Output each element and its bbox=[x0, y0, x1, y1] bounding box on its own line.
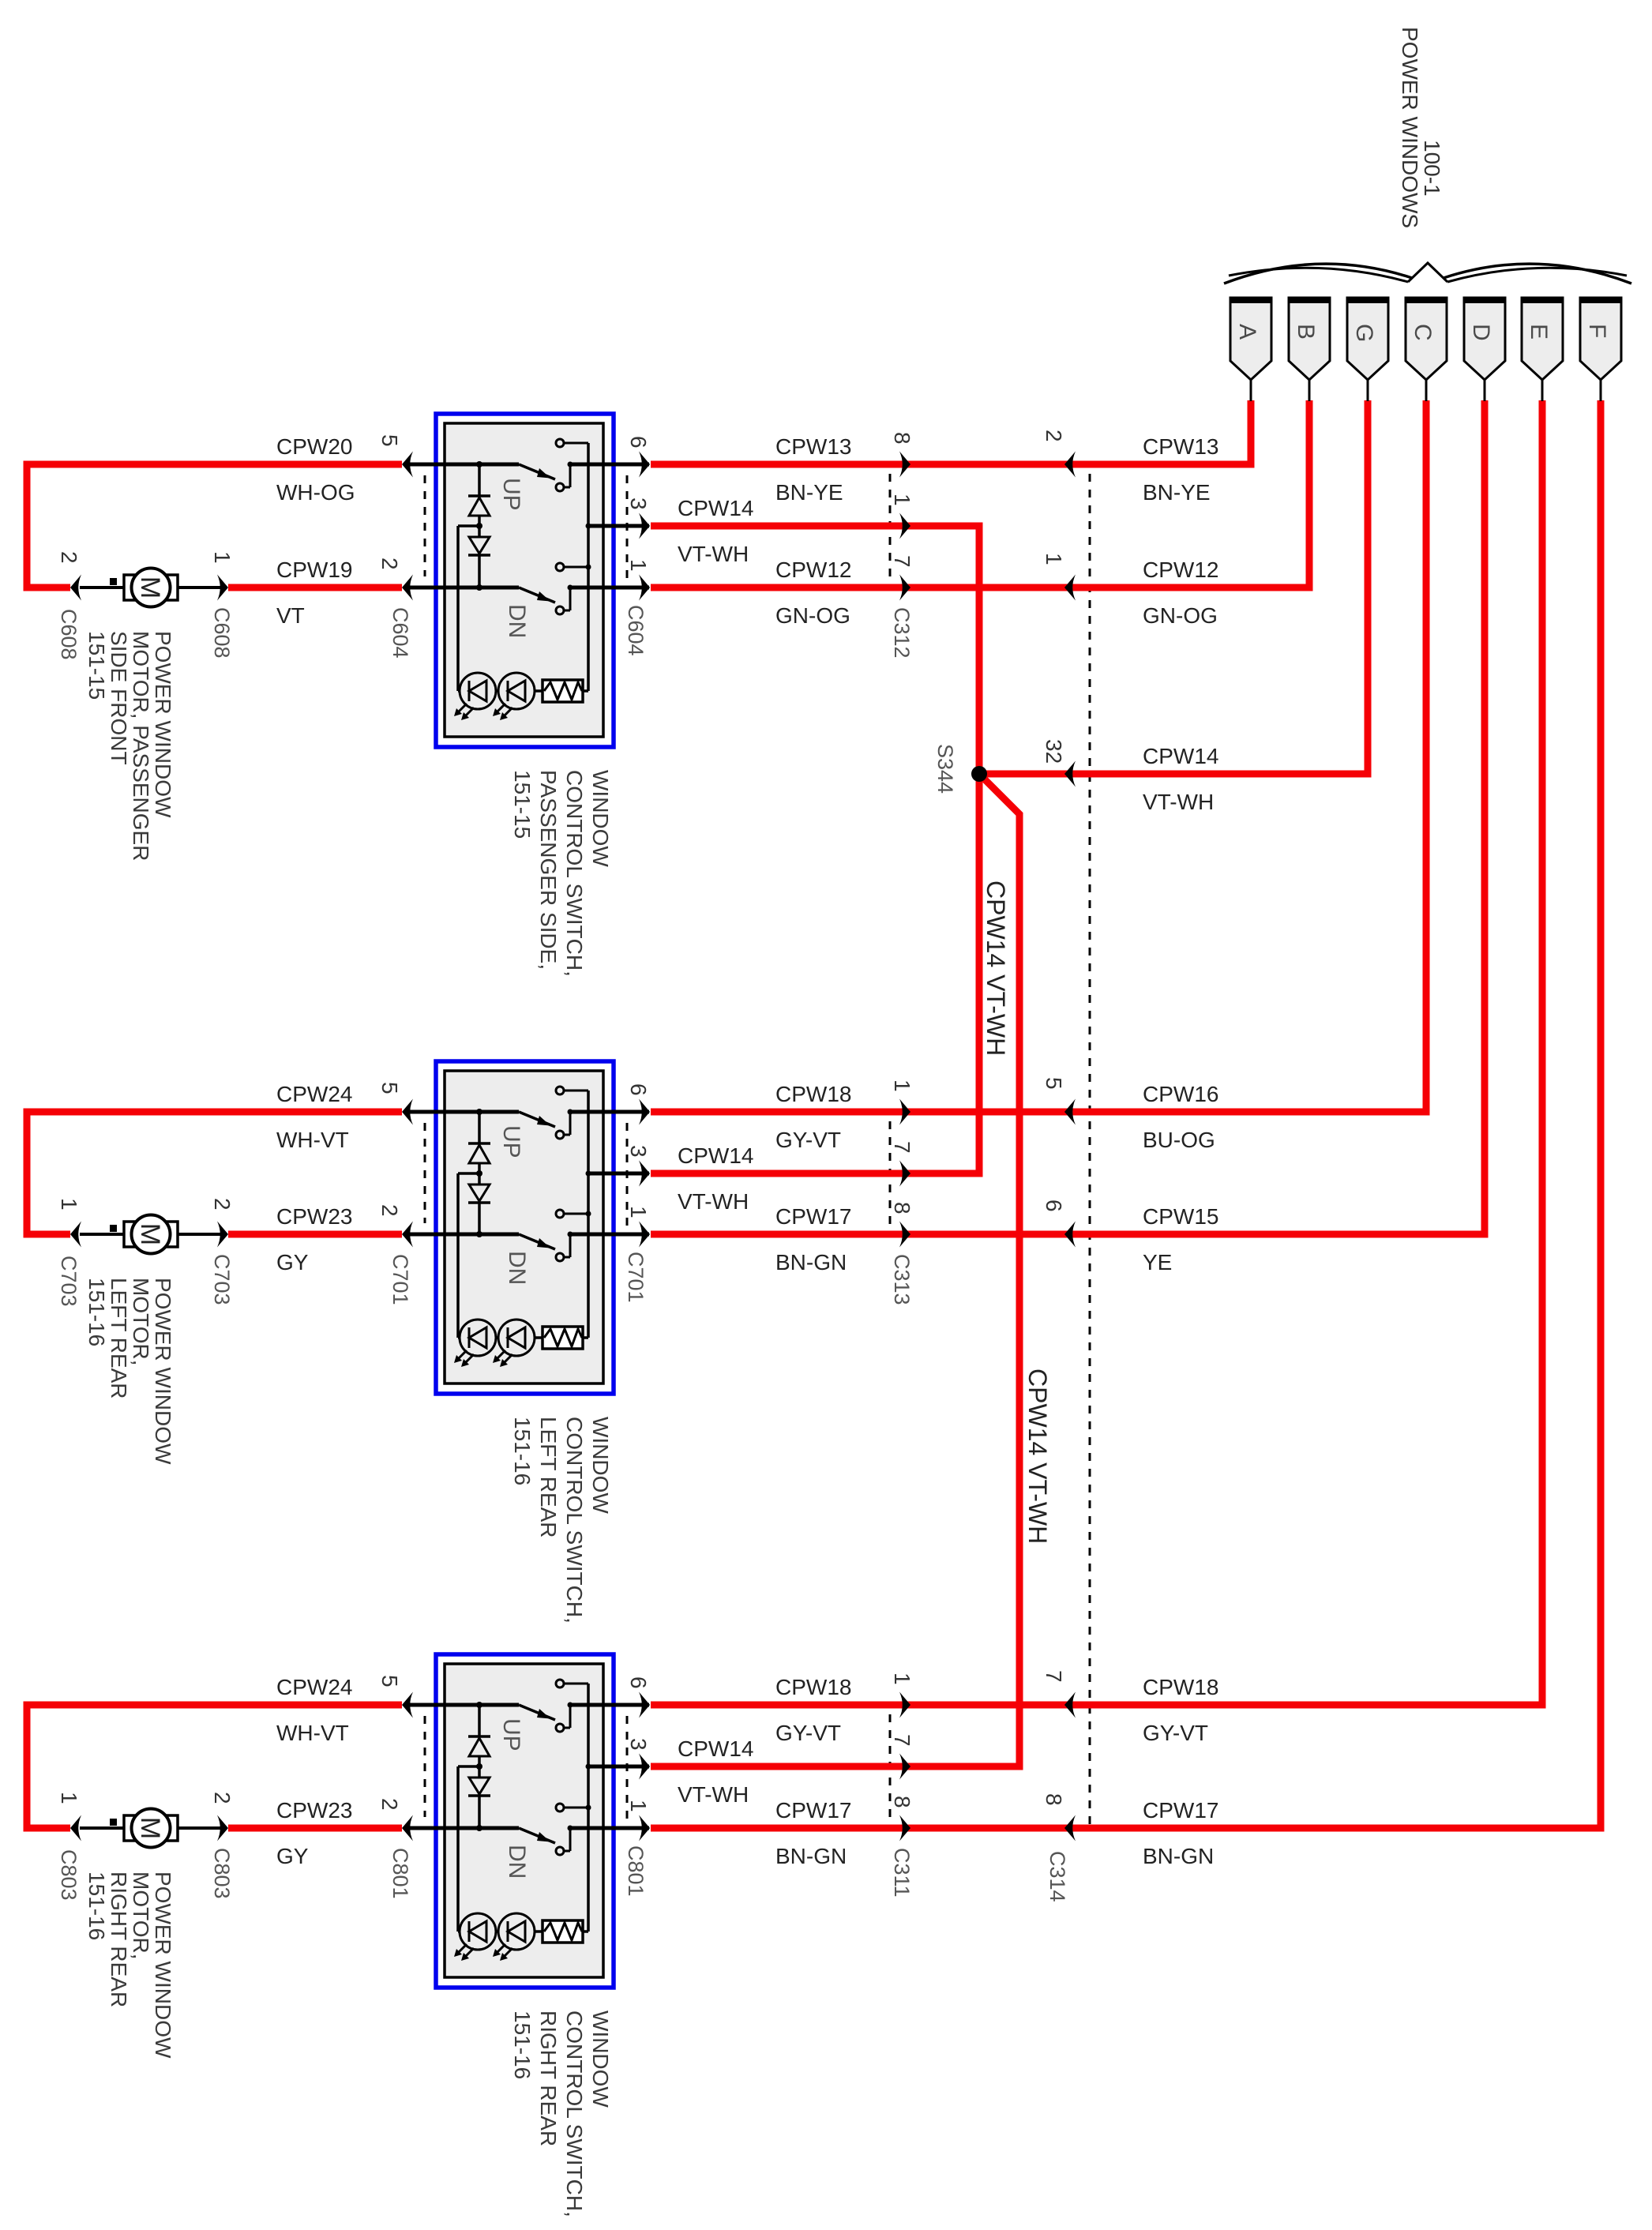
svg-text:2: 2 bbox=[377, 1204, 402, 1217]
svg-text:UP: UP bbox=[498, 1125, 524, 1158]
svg-text:BN-YE: BN-YE bbox=[775, 480, 843, 505]
svg-text:MOTOR, PASSENGER: MOTOR, PASSENGER bbox=[129, 631, 153, 861]
svg-text:5: 5 bbox=[377, 1082, 402, 1094]
svg-text:UP: UP bbox=[498, 1718, 524, 1751]
svg-text:CPW16: CPW16 bbox=[1143, 1082, 1218, 1106]
svg-text:GN-OG: GN-OG bbox=[775, 603, 850, 628]
svg-text:D: D bbox=[1468, 324, 1494, 341]
svg-text:GN-OG: GN-OG bbox=[1143, 603, 1218, 628]
svg-text:CPW24: CPW24 bbox=[276, 1082, 352, 1106]
svg-text:G: G bbox=[1351, 324, 1377, 342]
svg-text:8: 8 bbox=[890, 1202, 914, 1214]
svg-text:6: 6 bbox=[626, 1676, 651, 1689]
svg-text:CPW15: CPW15 bbox=[1143, 1204, 1218, 1229]
svg-text:C701: C701 bbox=[389, 1254, 412, 1305]
svg-text:E: E bbox=[1526, 324, 1552, 340]
svg-text:POWER WINDOW: POWER WINDOW bbox=[151, 1278, 175, 1465]
svg-text:CPW18: CPW18 bbox=[775, 1675, 851, 1699]
svg-text:151-16: 151-16 bbox=[510, 2010, 535, 2079]
svg-text:CPW17: CPW17 bbox=[775, 1204, 851, 1229]
svg-text:RIGHT REAR: RIGHT REAR bbox=[536, 2010, 561, 2146]
svg-text:151-16: 151-16 bbox=[84, 1278, 109, 1346]
svg-text:7: 7 bbox=[890, 1141, 914, 1154]
svg-text:6: 6 bbox=[626, 436, 651, 449]
svg-text:DN: DN bbox=[504, 604, 530, 638]
svg-text:C803: C803 bbox=[57, 1849, 81, 1901]
svg-text:RIGHT REAR: RIGHT REAR bbox=[107, 1871, 131, 2007]
svg-text:B: B bbox=[1293, 324, 1319, 340]
svg-text:2: 2 bbox=[377, 557, 402, 570]
svg-text:M: M bbox=[135, 576, 165, 599]
svg-text:POWER WINDOW: POWER WINDOW bbox=[151, 631, 175, 818]
svg-text:BN-GN: BN-GN bbox=[1143, 1844, 1214, 1868]
svg-text:WINDOW: WINDOW bbox=[588, 2010, 613, 2108]
svg-text:3: 3 bbox=[626, 497, 651, 510]
svg-text:POWER WINDOWS: POWER WINDOWS bbox=[1398, 27, 1422, 228]
svg-text:CPW14 VT-WH: CPW14 VT-WH bbox=[1023, 1368, 1052, 1544]
svg-text:1: 1 bbox=[626, 559, 651, 572]
svg-text:CPW17: CPW17 bbox=[775, 1798, 851, 1823]
svg-text:GY-VT: GY-VT bbox=[775, 1128, 841, 1152]
svg-text:UP: UP bbox=[498, 478, 524, 511]
svg-text:CPW23: CPW23 bbox=[276, 1798, 352, 1823]
svg-text:CONTROL SWITCH,: CONTROL SWITCH, bbox=[562, 2010, 587, 2217]
svg-text:VT: VT bbox=[276, 603, 305, 628]
svg-text:LEFT REAR: LEFT REAR bbox=[536, 1417, 561, 1538]
svg-text:GY: GY bbox=[276, 1250, 309, 1275]
svg-text:1: 1 bbox=[626, 1800, 651, 1812]
svg-text:C801: C801 bbox=[624, 1845, 648, 1897]
svg-text:WINDOW: WINDOW bbox=[588, 770, 613, 867]
svg-text:CPW18: CPW18 bbox=[1143, 1675, 1218, 1699]
svg-text:C604: C604 bbox=[624, 605, 648, 656]
svg-text:151-15: 151-15 bbox=[84, 631, 109, 700]
svg-text:A: A bbox=[1234, 324, 1260, 340]
svg-text:151-16: 151-16 bbox=[510, 1417, 535, 1485]
svg-text:C608: C608 bbox=[57, 609, 81, 660]
svg-text:1: 1 bbox=[890, 494, 914, 506]
svg-text:5: 5 bbox=[377, 1675, 402, 1688]
svg-text:C313: C313 bbox=[890, 1254, 914, 1305]
svg-text:BN-GN: BN-GN bbox=[775, 1844, 847, 1868]
svg-text:CPW14 VT-WH: CPW14 VT-WH bbox=[982, 880, 1010, 1056]
svg-text:WH-OG: WH-OG bbox=[276, 480, 355, 505]
svg-text:GY: GY bbox=[276, 1844, 309, 1868]
svg-text:C801: C801 bbox=[389, 1848, 412, 1899]
svg-text:CPW24: CPW24 bbox=[276, 1675, 352, 1699]
svg-text:2: 2 bbox=[210, 1198, 235, 1211]
svg-text:151-15: 151-15 bbox=[510, 770, 535, 839]
svg-text:1: 1 bbox=[626, 1206, 651, 1218]
svg-text:1: 1 bbox=[57, 1198, 81, 1211]
svg-text:100-1: 100-1 bbox=[1420, 140, 1444, 197]
svg-text:C703: C703 bbox=[57, 1256, 81, 1307]
svg-text:WH-VT: WH-VT bbox=[276, 1128, 349, 1152]
svg-text:BN-GN: BN-GN bbox=[775, 1250, 847, 1275]
svg-text:PASSENGER SIDE,: PASSENGER SIDE, bbox=[536, 770, 561, 970]
svg-text:32: 32 bbox=[1042, 739, 1066, 764]
svg-text:3: 3 bbox=[626, 1738, 651, 1751]
svg-text:CPW13: CPW13 bbox=[775, 434, 851, 459]
svg-text:CONTROL SWITCH,: CONTROL SWITCH, bbox=[562, 770, 587, 977]
svg-text:CPW12: CPW12 bbox=[775, 557, 851, 582]
svg-text:C312: C312 bbox=[890, 607, 914, 659]
svg-text:M: M bbox=[135, 1223, 165, 1245]
svg-text:6: 6 bbox=[1042, 1199, 1066, 1212]
svg-text:MOTOR,: MOTOR, bbox=[129, 1278, 153, 1365]
svg-text:GY-VT: GY-VT bbox=[775, 1721, 841, 1745]
svg-text:VT-WH: VT-WH bbox=[678, 1782, 749, 1807]
svg-text:VT-WH: VT-WH bbox=[1143, 790, 1214, 814]
svg-text:YE: YE bbox=[1143, 1250, 1172, 1275]
svg-text:7: 7 bbox=[1042, 1670, 1066, 1683]
svg-text:151-16: 151-16 bbox=[84, 1871, 109, 1940]
svg-text:DN: DN bbox=[504, 1845, 530, 1879]
svg-text:M: M bbox=[135, 1817, 165, 1839]
svg-text:CPW12: CPW12 bbox=[1143, 557, 1218, 582]
svg-text:VT-WH: VT-WH bbox=[678, 542, 749, 566]
svg-text:C314: C314 bbox=[1046, 1851, 1069, 1902]
svg-text:CPW14: CPW14 bbox=[1143, 744, 1218, 768]
svg-text:2: 2 bbox=[57, 551, 81, 564]
svg-text:7: 7 bbox=[890, 1734, 914, 1747]
svg-text:CPW17: CPW17 bbox=[1143, 1798, 1218, 1823]
svg-text:8: 8 bbox=[890, 1796, 914, 1808]
svg-text:CPW13: CPW13 bbox=[1143, 434, 1218, 459]
svg-text:2: 2 bbox=[1042, 430, 1066, 442]
svg-text:LEFT REAR: LEFT REAR bbox=[107, 1278, 131, 1399]
svg-text:S344: S344 bbox=[933, 744, 957, 794]
svg-text:1: 1 bbox=[1042, 553, 1066, 565]
svg-text:C604: C604 bbox=[389, 607, 412, 659]
svg-text:6: 6 bbox=[626, 1083, 651, 1096]
svg-text:2: 2 bbox=[210, 1792, 235, 1804]
svg-text:8: 8 bbox=[890, 432, 914, 445]
svg-text:7: 7 bbox=[890, 555, 914, 568]
svg-text:8: 8 bbox=[1042, 1793, 1066, 1806]
svg-text:POWER WINDOW: POWER WINDOW bbox=[151, 1871, 175, 2059]
svg-text:MOTOR,: MOTOR, bbox=[129, 1871, 153, 1959]
svg-text:CPW18: CPW18 bbox=[775, 1082, 851, 1106]
svg-text:5: 5 bbox=[377, 434, 402, 447]
svg-text:C: C bbox=[1410, 324, 1436, 341]
svg-text:CPW19: CPW19 bbox=[276, 557, 352, 582]
svg-text:CPW14: CPW14 bbox=[678, 1143, 753, 1168]
svg-text:BN-YE: BN-YE bbox=[1143, 480, 1211, 505]
svg-text:C311: C311 bbox=[890, 1848, 914, 1898]
svg-text:GY-VT: GY-VT bbox=[1143, 1721, 1208, 1745]
svg-text:BU-OG: BU-OG bbox=[1143, 1128, 1215, 1152]
svg-text:CONTROL SWITCH,: CONTROL SWITCH, bbox=[562, 1417, 587, 1624]
svg-text:1: 1 bbox=[890, 1079, 914, 1092]
svg-text:C608: C608 bbox=[210, 607, 234, 659]
svg-text:DN: DN bbox=[504, 1251, 530, 1285]
svg-text:C703: C703 bbox=[210, 1254, 234, 1305]
svg-text:VT-WH: VT-WH bbox=[678, 1189, 749, 1214]
svg-text:CPW20: CPW20 bbox=[276, 434, 352, 459]
svg-text:5: 5 bbox=[1042, 1077, 1066, 1090]
svg-text:F: F bbox=[1584, 324, 1610, 338]
svg-text:3: 3 bbox=[626, 1145, 651, 1158]
svg-text:WH-VT: WH-VT bbox=[276, 1721, 349, 1745]
svg-text:SIDE FRONT: SIDE FRONT bbox=[107, 631, 131, 765]
svg-text:1: 1 bbox=[890, 1672, 914, 1685]
svg-text:CPW14: CPW14 bbox=[678, 1736, 753, 1761]
svg-text:1: 1 bbox=[57, 1792, 81, 1804]
svg-text:2: 2 bbox=[377, 1798, 402, 1811]
svg-text:CPW14: CPW14 bbox=[678, 496, 753, 520]
svg-text:C701: C701 bbox=[624, 1252, 648, 1303]
svg-text:1: 1 bbox=[210, 551, 235, 564]
svg-text:CPW23: CPW23 bbox=[276, 1204, 352, 1229]
svg-text:C803: C803 bbox=[210, 1848, 234, 1899]
svg-text:WINDOW: WINDOW bbox=[588, 1417, 613, 1514]
